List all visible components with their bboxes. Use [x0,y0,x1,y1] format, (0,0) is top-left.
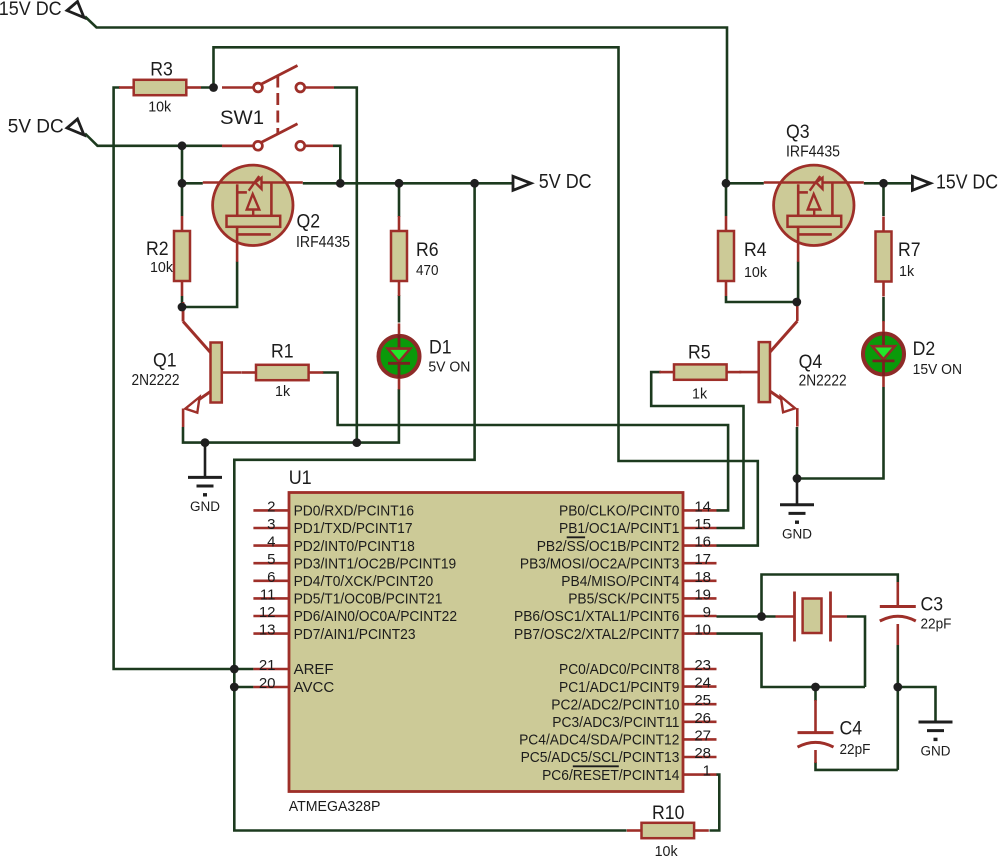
svg-text:D1: D1 [429,338,452,359]
svg-text:28: 28 [694,745,711,762]
svg-text:AREF: AREF [294,661,334,678]
svg-text:4: 4 [267,534,275,551]
svg-text:27: 27 [694,727,711,744]
svg-text:14: 14 [694,498,711,515]
svg-text:PC0/ADC0/PCINT8: PC0/ADC0/PCINT8 [559,661,679,678]
svg-text:PB5/SCK/PCINT5: PB5/SCK/PCINT5 [568,591,679,608]
svg-text:R6: R6 [416,240,439,261]
svg-text:PC3/ADC3/PCINT11: PC3/ADC3/PCINT11 [552,714,679,731]
svg-text:Q2: Q2 [297,212,321,233]
svg-text:PC4/ADC4/SDA/PCINT12: PC4/ADC4/SDA/PCINT12 [519,732,679,749]
svg-text:11: 11 [260,586,276,603]
svg-text:PC1/ADC1/PCINT9: PC1/ADC1/PCINT9 [559,679,679,696]
svg-text:AVCC: AVCC [294,679,335,696]
svg-text:PD4/T0/XCK/PCINT20: PD4/T0/XCK/PCINT20 [294,573,434,590]
svg-text:PB1/OC1A/PCINT1: PB1/OC1A/PCINT1 [559,520,679,537]
svg-text:D2: D2 [913,339,936,360]
svg-text:PB4/MISO/PCINT4: PB4/MISO/PCINT4 [561,573,679,590]
svg-text:19: 19 [694,586,711,603]
svg-text:IRF4435: IRF4435 [296,234,350,251]
svg-text:6: 6 [267,569,275,586]
svg-text:3: 3 [267,516,275,533]
svg-text:PD6/AIN0/OC0A/PCINT22: PD6/AIN0/OC0A/PCINT22 [294,608,457,625]
svg-text:GND: GND [190,499,220,514]
svg-text:R7: R7 [898,240,921,261]
svg-text:12: 12 [259,604,276,621]
svg-text:PB2/SS/OC1B/PCINT2: PB2/SS/OC1B/PCINT2 [537,538,680,555]
svg-text:PD2/INT0/PCINT18: PD2/INT0/PCINT18 [294,538,415,555]
svg-text:10k: 10k [148,99,171,116]
svg-text:22pF: 22pF [921,616,952,633]
svg-text:5V DC: 5V DC [8,117,64,138]
svg-text:23: 23 [694,657,711,674]
svg-text:1k: 1k [275,383,291,400]
svg-text:ATMEGA328P: ATMEGA328P [289,798,381,815]
svg-text:1k: 1k [692,386,708,403]
svg-text:5: 5 [267,551,275,568]
svg-text:2N2222: 2N2222 [799,373,847,390]
svg-text:PB0/CLKO/PCINT0: PB0/CLKO/PCINT0 [559,503,679,520]
svg-text:20: 20 [259,675,276,692]
svg-text:SW1: SW1 [220,107,264,129]
svg-text:5V ON: 5V ON [428,359,470,376]
svg-text:2N2222: 2N2222 [132,372,180,389]
svg-text:1: 1 [703,763,711,780]
svg-text:PC2/ADC2/PCINT10: PC2/ADC2/PCINT10 [551,696,679,713]
svg-text:PD0/RXD/PCINT16: PD0/RXD/PCINT16 [294,503,414,520]
svg-text:15V DC: 15V DC [0,0,62,20]
svg-text:PD7/AIN1/PCINT23: PD7/AIN1/PCINT23 [294,626,416,643]
svg-text:470: 470 [416,262,439,279]
svg-text:R4: R4 [744,240,767,261]
svg-text:PB3/MOSI/OC2A/PCINT3: PB3/MOSI/OC2A/PCINT3 [520,555,680,572]
svg-text:R3: R3 [150,60,173,81]
svg-text:10k: 10k [655,843,678,857]
svg-text:22pF: 22pF [840,741,871,758]
svg-text:R1: R1 [271,342,294,363]
svg-text:Q3: Q3 [786,122,810,143]
svg-text:18: 18 [694,569,711,586]
svg-text:5V DC: 5V DC [539,171,592,193]
svg-text:15V ON: 15V ON [913,361,962,378]
svg-text:GND: GND [782,526,812,541]
svg-text:IRF4435: IRF4435 [786,144,840,161]
svg-text:C4: C4 [840,719,863,740]
svg-text:25: 25 [694,692,711,709]
svg-text:U1: U1 [289,468,312,489]
svg-text:2: 2 [267,498,275,515]
svg-text:17: 17 [694,551,711,568]
svg-text:26: 26 [694,710,711,727]
svg-text:PB7/OSC2/XTAL2/PCINT7: PB7/OSC2/XTAL2/PCINT7 [514,626,679,643]
svg-text:21: 21 [259,657,276,674]
svg-text:PD5/T1/OC0B/PCINT21: PD5/T1/OC0B/PCINT21 [294,591,443,608]
svg-text:R5: R5 [688,343,711,364]
svg-text:10: 10 [694,622,711,639]
svg-text:PD1/TXD/PCINT17: PD1/TXD/PCINT17 [294,520,413,537]
svg-text:PD3/INT1/OC2B/PCINT19: PD3/INT1/OC2B/PCINT19 [294,555,457,572]
svg-text:PC5/ADC5/SCL/PCINT13: PC5/ADC5/SCL/PCINT13 [521,749,680,766]
svg-text:10k: 10k [150,259,173,276]
svg-text:10k: 10k [744,264,767,281]
svg-text:PC6/RESET/PCINT14: PC6/RESET/PCINT14 [542,767,679,784]
svg-text:24: 24 [694,675,711,692]
svg-text:16: 16 [694,534,711,551]
svg-text:GND: GND [921,744,951,759]
svg-text:C3: C3 [921,595,944,616]
svg-text:13: 13 [259,622,276,639]
svg-text:R2: R2 [146,239,169,260]
svg-text:R10: R10 [652,803,684,824]
svg-text:15: 15 [694,516,711,533]
svg-text:1k: 1k [899,263,915,280]
svg-text:PB6/OSC1/XTAL1/PCINT6: PB6/OSC1/XTAL1/PCINT6 [514,608,679,625]
svg-text:Q4: Q4 [799,352,823,373]
svg-text:15V DC: 15V DC [936,172,998,194]
svg-text:9: 9 [703,604,711,621]
svg-text:Q1: Q1 [153,351,177,372]
